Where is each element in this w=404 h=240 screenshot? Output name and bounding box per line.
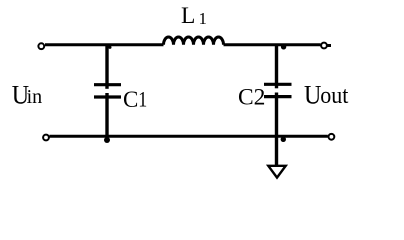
- inductor L1 (6 humps): [164, 37, 224, 45]
- capacitor C2 bottom plate: [264, 95, 292, 98]
- capacitor C1 top plate: [94, 83, 121, 86]
- wire: top-left terminal to inductor L1: [45, 43, 164, 46]
- junction dot: ground node on bottom rail: [281, 137, 286, 142]
- svg-text:1: 1: [199, 9, 208, 28]
- svg-text:C: C: [123, 87, 138, 112]
- capacitor C1 lower lead: [105, 93, 108, 137]
- junction dot: C2 top node on top rail: [281, 44, 286, 49]
- terminal circle bottom-right (output -): [329, 134, 335, 140]
- capacitor C2 top plate: [264, 83, 292, 86]
- terminal circle top-left (input +): [38, 43, 44, 49]
- wire: inductor L1 to top-right node: [224, 43, 321, 46]
- ground lead from bottom rail: [275, 136, 278, 165]
- terminal circle top-right (output +): [321, 43, 327, 49]
- wire: bottom rail from bottom-left terminal to bottom-right terminal: [50, 135, 328, 138]
- ground symbol (open triangle): [268, 166, 285, 178]
- svg-text:C2: C2: [238, 84, 265, 110]
- wire stub right of top-right terminal: [328, 44, 332, 47]
- capacitor C1 upper lead: [105, 44, 108, 89]
- svg-text:out: out: [320, 82, 349, 109]
- capacitor C2 upper lead: [275, 44, 278, 88]
- terminal circle bottom-left (input -): [43, 135, 49, 141]
- junction dot: C1 top node on top rail: [108, 46, 111, 49]
- svg-text:1: 1: [138, 88, 147, 112]
- svg-text:L: L: [181, 3, 195, 29]
- junction dot: C1 bottom node on bottom rail: [104, 137, 110, 143]
- capacitor C2 lower lead: [275, 93, 278, 138]
- capacitor C1 bottom plate: [94, 95, 121, 98]
- svg-text:U: U: [304, 82, 321, 110]
- svg-text:in: in: [27, 86, 43, 108]
